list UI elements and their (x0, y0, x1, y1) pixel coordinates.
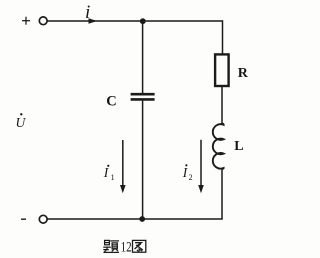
terminal + (top left) (22, 17, 30, 25)
inductor L (213, 124, 224, 169)
resistor R (215, 54, 229, 86)
svg-text:i: i (85, 2, 90, 23)
wire top horizontal (47, 20, 222, 22)
current arrow I (on top wire) (89, 18, 98, 23)
label I1 (103, 165, 115, 182)
terminal circle top (39, 17, 47, 25)
wire R to L (221, 87, 223, 124)
caption: character 题 (ti) (104, 240, 119, 252)
terminal - (bottom left) (21, 218, 26, 220)
svg-text:2: 2 (189, 173, 193, 182)
caption: character 图 (tu) (133, 240, 146, 252)
svg-text:R: R (238, 66, 249, 81)
terminal circle bottom (39, 215, 47, 223)
svg-text:C: C (106, 94, 116, 110)
node top junction (140, 18, 146, 24)
label U (source voltage phasor) (16, 113, 27, 130)
svg-text:L: L (234, 139, 243, 154)
wire middle branch upper (142, 21, 144, 93)
wire bottom horizontal (47, 218, 222, 220)
label I2 (182, 164, 193, 182)
wire right branch upper (222, 20, 224, 53)
capacitor C (131, 94, 155, 99)
svg-text:1: 1 (111, 173, 115, 182)
current arrow I1 (120, 140, 126, 193)
node bottom junction (139, 216, 145, 222)
current arrow I2 (198, 140, 204, 194)
wire L to bottom (221, 168, 223, 219)
svg-text:12: 12 (121, 240, 132, 256)
wire middle branch lower (142, 101, 144, 219)
svg-text:U: U (16, 115, 27, 130)
